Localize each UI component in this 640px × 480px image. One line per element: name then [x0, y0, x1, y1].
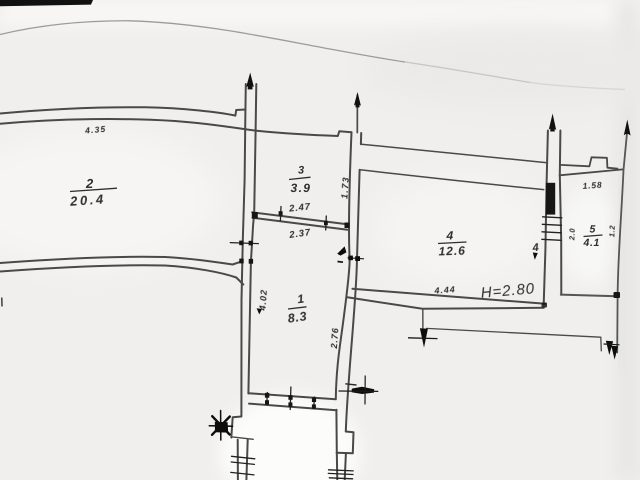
room1 south lower blob 1 — [265, 400, 269, 404]
svg-text:4.02: 4.02 — [257, 289, 269, 312]
bottom left wall east line — [246, 440, 247, 480]
room1 south tick blob 2 — [288, 395, 292, 400]
arrow cluster at line D right end — [606, 341, 618, 360]
svg-text:20.4: 20.4 — [69, 191, 107, 209]
wall room2 south lower line — [0, 265, 243, 284]
blob W1 room3 corner — [252, 212, 258, 219]
room1 south wall tick 1 — [266, 393, 269, 405]
bottom left wall west line — [237, 440, 239, 480]
svg-text:2: 2 — [85, 176, 94, 191]
blob room4 SE corner — [542, 303, 548, 308]
room1 south tick blob 1 — [265, 393, 269, 398]
room4 north wall line B — [360, 170, 544, 190]
entrance arrow cross vertical — [364, 376, 366, 405]
room5 north wall with closet notch — [560, 157, 617, 168]
entrance stub from wall — [345, 384, 356, 385]
W1 door jamb square bottom-right — [249, 259, 253, 264]
room3 south wall upper line — [252, 212, 347, 224]
north arrow W1 — [246, 73, 254, 90]
entrance arrow cross horizontal — [339, 390, 379, 392]
down arrow on dimension line D left end — [420, 328, 428, 347]
wall room2 south upper line — [0, 257, 241, 265]
north arrow far right wall — [624, 120, 631, 136]
svg-text:1.2: 1.2 — [607, 225, 616, 238]
svg-text:5: 5 — [590, 224, 596, 236]
room3 south wall tick 1 — [279, 207, 282, 221]
room3 wall tick blob 1 — [279, 211, 283, 216]
entrance arrow bold — [352, 387, 375, 394]
bottom-right wall ladder rung 1 — [329, 470, 354, 471]
long dimension line D — [427, 328, 602, 350]
room3 east wall east line upper stub — [360, 133, 362, 144]
corridor wall black fill — [546, 183, 555, 215]
room4 south wall lower line — [347, 297, 544, 309]
bottom right wall east line lower — [345, 453, 346, 480]
room3 south wall tick 2 — [325, 216, 328, 230]
room3 east wall arrow stem — [356, 95, 358, 133]
corridor door ladder rung 2 — [542, 224, 561, 225]
wall room2 north outer line — [0, 107, 246, 115]
bottom-left wall ladder rung 1 — [232, 456, 255, 459]
wall W1 west line (rooms 2/3 divider down to room1) — [231, 84, 246, 438]
svg-text:12.6: 12.6 — [438, 244, 466, 259]
corridor east wall / room5 west wall — [560, 131, 562, 295]
room1 south wall tick 2 — [289, 387, 292, 410]
room3 wall tick blob 2 — [324, 221, 328, 225]
connector to dimension arrow — [422, 309, 424, 329]
blob room5 SE corner — [614, 292, 621, 298]
svg-text:4.1: 4.1 — [583, 237, 600, 249]
svg-text:4.35: 4.35 — [84, 124, 107, 136]
wall below room1 east side — [335, 410, 338, 480]
room4 south wall upper line — [352, 289, 545, 304]
svg-text:1.73: 1.73 — [339, 176, 351, 199]
W1 door jamb square bottom-left — [239, 259, 243, 264]
down arrow crossbar — [408, 337, 438, 340]
room3 east wall west line continuing to room1 east wall — [336, 132, 352, 399]
bottom left wall corner rung — [232, 437, 253, 439]
bottom-right wall ladder rung 3 — [329, 478, 352, 479]
svg-text:4.44: 4.44 — [433, 284, 456, 296]
far right wall with slope — [617, 134, 627, 353]
room1 south wall upper line — [248, 393, 335, 399]
room4 west wall east line — [346, 170, 360, 432]
room3 south wall lower line — [253, 218, 348, 230]
room2 label 2 over 20.4 — [69, 176, 117, 209]
room1 south lower blob 3 — [312, 404, 316, 408]
room1 label 1 over 8.3 — [287, 291, 308, 325]
dimension mark 4 with arrow near corridor — [531, 242, 539, 260]
vent star symbol — [209, 411, 232, 441]
corridor door ladder rung 4 — [542, 239, 561, 240]
room5 north wall inner line — [560, 169, 623, 175]
corridor upper south line A — [361, 144, 546, 162]
svg-text:4: 4 — [531, 242, 539, 255]
arrow below 4.02 — [257, 308, 262, 314]
corridor west wall line — [544, 131, 548, 305]
scan artifact black bar top-left — [0, 0, 93, 6]
W1 door tick — [230, 243, 258, 244]
vent star center blob — [215, 422, 228, 433]
bottom-right wall ladder rung 2 — [328, 473, 353, 474]
W1 door jamb square top-right — [249, 241, 253, 246]
svg-text:4: 4 — [446, 229, 454, 243]
room1 south lower blob 2 — [288, 402, 292, 406]
door ticks and junction blobs — [2, 207, 562, 479]
room1 south wall tick 3 — [313, 397, 316, 409]
room1 south tick blob 3 — [312, 397, 316, 402]
room3 label 3 over 3.9 — [289, 165, 311, 196]
room5 label 5 over 4.1 — [583, 224, 603, 250]
svg-text:1.58: 1.58 — [582, 180, 602, 191]
outer contour curve — [0, 21, 405, 62]
corridor door ladder rung 3 — [542, 232, 561, 233]
bottom-left wall ladder rung 2 — [231, 462, 254, 464]
corridor door ladder rung 1 — [543, 217, 562, 218]
wall room2 north inner line continuing as room3 north wall — [0, 119, 352, 136]
svg-text:3: 3 — [298, 165, 304, 177]
svg-text:2.0: 2.0 — [567, 228, 576, 242]
room5 south wall — [561, 295, 617, 297]
svg-text:2.76: 2.76 — [329, 327, 341, 350]
room4 label 4 over 12.6 — [438, 229, 467, 259]
north arrow corridor wall — [549, 114, 556, 132]
left edge tick — [1, 298, 3, 306]
bottom-left wall ladder rung 3 — [231, 472, 254, 475]
room1 south wall lower line — [249, 404, 337, 411]
wall W1 east line — [248, 84, 256, 394]
dimension arrow mark on room1 east wall — [337, 246, 364, 262]
blob room3 east wall bottom junction — [345, 223, 350, 229]
svg-text:3.9: 3.9 — [291, 181, 312, 195]
svg-text:8.3: 8.3 — [287, 309, 308, 326]
north arrow room3 wall — [354, 92, 361, 107]
pilaster bottom right wall — [337, 432, 354, 454]
W1 door jamb square top-left — [239, 241, 243, 246]
